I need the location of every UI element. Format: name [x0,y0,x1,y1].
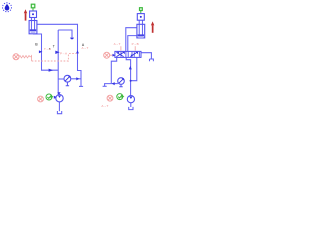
svg-text:A→T: A→T [114,42,121,46]
svg-text:P→A: P→A [60,51,67,55]
svg-text:P→B: P→B [132,42,139,46]
svg-text:T: T [53,45,55,49]
svg-text:A→T: A→T [101,104,108,108]
svg-text:A→T: A→T [82,46,89,50]
svg-text:T→A: T→A [44,47,51,51]
